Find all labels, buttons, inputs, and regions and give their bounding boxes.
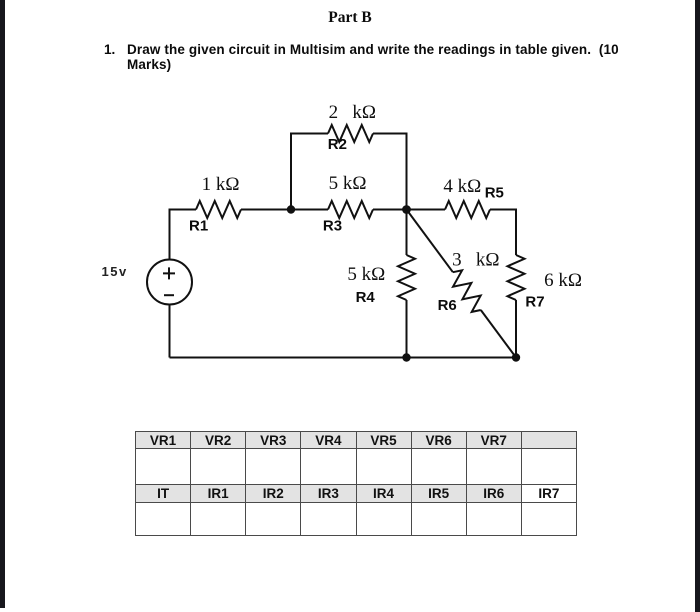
question number 1. bbox=[104, 43, 115, 58]
svg-text:R6: R6 bbox=[438, 297, 457, 314]
svg-text:R1: R1 bbox=[189, 218, 208, 235]
svg-text:5 kΩ: 5 kΩ bbox=[329, 173, 367, 194]
svg-text:1 kΩ: 1 kΩ bbox=[202, 174, 240, 195]
bottom node 1 junction dot bbox=[402, 353, 410, 361]
wire R4 to bottom node 1 bbox=[406, 300, 408, 358]
resistor R3 bbox=[328, 201, 373, 218]
title Part B bbox=[0, 9, 700, 27]
svg-text:R7: R7 bbox=[525, 294, 544, 311]
wire node A to R3 bbox=[291, 209, 328, 211]
svg-text:5 kΩ: 5 kΩ bbox=[347, 264, 385, 285]
svg-text:R2: R2 bbox=[328, 136, 347, 153]
resistor R6 bbox=[453, 270, 481, 312]
svg-text:R4: R4 bbox=[356, 289, 376, 306]
wire node B down to R4 bbox=[406, 210, 408, 256]
voltage source plus sign bbox=[163, 267, 175, 279]
svg-text:15v: 15v bbox=[102, 264, 128, 279]
svg-text:R3: R3 bbox=[323, 218, 342, 235]
wire R6 to bottom node 2 bbox=[481, 310, 516, 358]
svg-text:3 kΩ: 3 kΩ bbox=[452, 250, 499, 271]
resistor R5 bbox=[445, 201, 490, 218]
svg-text:2 kΩ: 2 kΩ bbox=[329, 102, 376, 123]
bottom rail wire bbox=[170, 357, 517, 359]
voltage source V1 circle bbox=[147, 260, 192, 305]
wire R3 to node B bbox=[373, 209, 407, 211]
node A junction dot bbox=[287, 205, 295, 213]
wire node B diagonal to R6 bbox=[407, 210, 453, 273]
resistor R4 bbox=[398, 255, 415, 300]
wire source bottom to bottom rail bbox=[169, 304, 171, 357]
resistor R7 bbox=[508, 255, 525, 300]
readings table bbox=[135, 431, 577, 536]
node B junction dot bbox=[402, 205, 411, 214]
svg-text:6 kΩ: 6 kΩ bbox=[544, 270, 582, 291]
voltage source minus sign bbox=[164, 294, 174, 296]
wire node B to R5 bbox=[407, 209, 446, 211]
wire node A up and across to R2 bbox=[291, 134, 328, 210]
left black border bar bbox=[0, 0, 5, 608]
question text bbox=[127, 43, 667, 72]
wire R2 down to node B bbox=[373, 134, 407, 210]
wire R7 to bottom node 2 bbox=[515, 300, 517, 358]
svg-text:R5: R5 bbox=[485, 185, 504, 202]
svg-text:4 kΩ: 4 kΩ bbox=[443, 176, 481, 197]
wire R1 to node A bbox=[241, 209, 291, 211]
right black border bar bbox=[695, 0, 700, 612]
bottom node 2 junction dot bbox=[512, 353, 520, 361]
wire R5 right corner down to R7 bbox=[490, 210, 516, 256]
wire from source top to R1 (left riser + top-left horizontal) bbox=[170, 210, 197, 260]
resistor R2 bbox=[328, 125, 373, 142]
resistor R1 bbox=[196, 201, 241, 218]
